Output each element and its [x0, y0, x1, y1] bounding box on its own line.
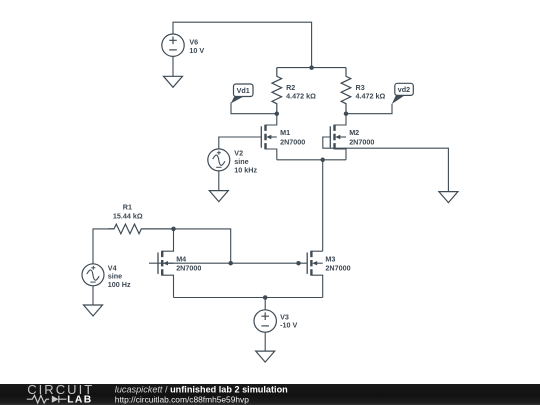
ground right	[439, 192, 458, 203]
svg-text:10 kHz: 10 kHz	[234, 165, 257, 174]
ground under V6	[164, 76, 183, 87]
svg-text:R1: R1	[123, 203, 132, 212]
ground under V4	[84, 305, 103, 316]
ground under V3	[256, 351, 275, 362]
svg-text:2N7000: 2N7000	[349, 137, 374, 146]
wire V2 to M1 gate	[219, 137, 261, 149]
node supply junction	[309, 65, 314, 70]
svg-text:2N7000: 2N7000	[280, 137, 305, 146]
node V3 junction	[263, 295, 268, 300]
net flag vd2	[392, 83, 414, 104]
svg-text:4.472 kΩ: 4.472 kΩ	[286, 92, 316, 101]
voltage source V2	[208, 149, 258, 175]
node gate rail M3 pin	[296, 261, 301, 266]
svg-text:M1: M1	[280, 128, 290, 137]
svg-text:M2: M2	[349, 128, 359, 137]
wire R1 junction to gate rail	[174, 229, 231, 263]
svg-text:2N7000: 2N7000	[325, 264, 350, 273]
svg-text:lucaspickett / unfinished lab: lucaspickett / unfinished lab 2 simulati…	[115, 385, 288, 395]
svg-text:100 Hz: 100 Hz	[108, 280, 131, 289]
voltage source V4	[82, 263, 131, 289]
svg-text:10 V: 10 V	[189, 46, 204, 55]
node R3 drain junction	[344, 111, 349, 116]
transistor M2	[330, 114, 374, 160]
svg-text:2N7000: 2N7000	[176, 264, 201, 273]
wire V2 to ground	[218, 171, 220, 191]
transistor M1	[261, 114, 305, 160]
node R2 drain junction	[275, 111, 280, 116]
resistor R1	[108, 203, 174, 234]
wire R1 left to V4	[93, 229, 114, 264]
node source rail junction	[320, 158, 325, 163]
voltage source V3	[254, 310, 297, 332]
svg-text:M3: M3	[325, 254, 335, 263]
transistor M4	[158, 229, 201, 298]
ground under V2	[209, 191, 228, 202]
svg-text:4.472 kΩ: 4.472 kΩ	[356, 92, 386, 101]
resistor R2	[272, 68, 316, 114]
svg-text:vd2: vd2	[398, 85, 410, 94]
transistor M3	[307, 251, 350, 298]
wire M2 gate to right ground	[323, 137, 449, 192]
svg-text:LAB: LAB	[67, 395, 91, 405]
svg-text:M4: M4	[176, 254, 186, 263]
wire source rail M1 M2	[277, 159, 346, 161]
svg-text:Vd1: Vd1	[237, 86, 250, 95]
wire V4 to ground	[92, 286, 94, 305]
wire tail down to M3 drain	[322, 160, 324, 251]
footer bar	[0, 384, 540, 405]
wire bottom tail rail	[174, 297, 323, 299]
wire V6 top to supply rail	[173, 22, 312, 67]
wire V3 top lead	[264, 298, 266, 310]
node R1 M4 drain junction	[171, 227, 176, 232]
voltage source V6	[162, 34, 205, 56]
resistor R3	[341, 68, 385, 114]
wire gate rail M4 to M3	[149, 262, 307, 264]
logo resistor diode squiggle	[27, 395, 67, 403]
wire V3 to ground	[264, 332, 266, 351]
svg-text:15.44 kΩ: 15.44 kΩ	[113, 212, 143, 221]
net flag Vd1	[231, 84, 253, 103]
wire Vd1 flag to node	[231, 102, 277, 113]
svg-text:http://circuitlab.com/c88fmh5e: http://circuitlab.com/c88fmh5e59hvp	[115, 394, 249, 404]
wire vd2 flag to node	[346, 104, 392, 114]
wire V6 to ground	[172, 56, 174, 76]
node gate rail drain tie	[228, 261, 233, 266]
svg-text:-10 V: -10 V	[280, 321, 297, 330]
wire mid supply rail	[277, 67, 346, 69]
